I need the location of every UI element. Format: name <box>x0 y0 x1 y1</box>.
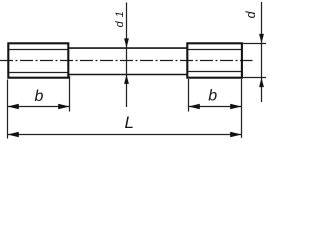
arrowhead d1 top (points down at shank top) <box>124 38 129 48</box>
arrowhead b-left west <box>8 104 19 110</box>
svg-text:d1: d1 <box>114 7 126 27</box>
svg-text:b: b <box>35 88 44 105</box>
shank top line <box>68 47 188 49</box>
arrowhead b-left east <box>58 104 69 110</box>
svg-text:b: b <box>208 88 217 105</box>
extension line left end (b and L) <box>7 80 9 139</box>
arrowhead d top (points down at OD top) <box>259 34 264 44</box>
right thread root line bottom <box>188 71 241 73</box>
centerline (stud axis, dash-dot) <box>0 60 253 62</box>
dimension line d (vertical at right) <box>261 2 263 102</box>
arrowhead L west <box>8 132 19 138</box>
left thread root line top <box>9 49 68 51</box>
right thread root line top <box>188 49 241 51</box>
svg-text:L: L <box>125 113 134 132</box>
left threaded section outline <box>8 43 68 77</box>
extension line left thread end (b) <box>69 76 71 112</box>
dimension line L (overall length) <box>8 134 242 136</box>
dimension line d1 (vertical through shank) <box>126 3 128 108</box>
arrowhead L east <box>230 132 241 138</box>
left thread root line bottom <box>9 72 68 74</box>
arrowhead b-right east <box>230 104 241 110</box>
dimension line b left <box>8 106 70 108</box>
arrowhead d bottom (points up at OD bottom) <box>259 78 264 88</box>
extension line right end (b and L) <box>241 79 243 138</box>
extension line for d, bottom right <box>243 77 267 79</box>
dimension line b right <box>189 106 242 108</box>
arrowhead d1 bottom (points up at shank bottom) <box>124 74 129 84</box>
extension line right thread end (b) <box>188 79 190 112</box>
svg-text:d: d <box>244 10 258 18</box>
extension line for d, top right <box>243 43 267 45</box>
right threaded section outline <box>187 43 242 77</box>
arrowhead b-right west <box>189 104 200 110</box>
shank bottom line <box>68 74 188 76</box>
